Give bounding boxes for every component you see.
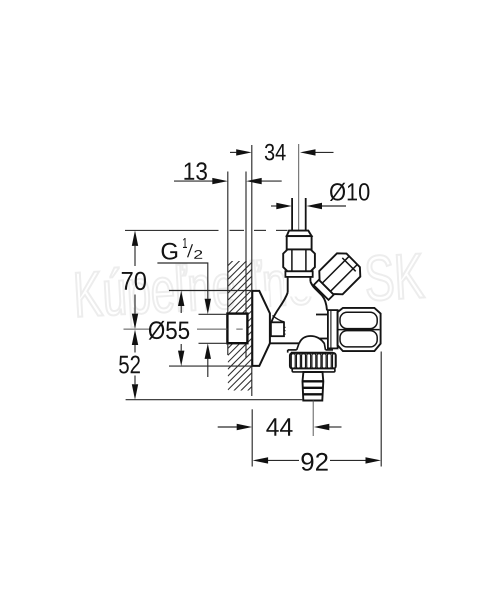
dimension: 92 <box>253 453 381 471</box>
watermark Kupelne.SK <box>76 250 426 330</box>
wall left face line <box>227 172 229 356</box>
dome flares and shelves <box>297 343 326 350</box>
inlet pipe extension lines <box>199 313 228 315</box>
body saddle curve <box>273 316 285 322</box>
compression fitting cap <box>287 231 312 237</box>
bonnet dome <box>299 336 324 343</box>
extension line right of 92 <box>380 352 382 467</box>
diagonal branch hex nut <box>319 253 360 294</box>
dimension: diameter 55 <box>124 291 253 367</box>
wall flange (escutcheon) <box>252 291 270 366</box>
hose barb outline <box>303 372 324 401</box>
dimension: G 1/2 label <box>157 238 211 377</box>
dimension: 44 <box>218 418 342 436</box>
dimension: diameter 10 <box>271 183 369 210</box>
dimension: 52 <box>119 330 303 400</box>
dimension: 13 <box>174 162 282 184</box>
valve inlet neck with thread <box>271 322 284 336</box>
right nut middle facet line <box>339 329 380 331</box>
compression fitting upper body <box>287 236 312 249</box>
right outlet hex nut <box>338 308 381 351</box>
hose center line <box>312 400 314 436</box>
G1/2 threaded nipple in wall <box>227 314 247 344</box>
washer under nut <box>285 271 312 277</box>
valve top port tube <box>287 277 289 293</box>
diagonal nut facet lines <box>322 256 349 283</box>
tile surface line <box>251 145 253 396</box>
wall right face line <box>245 172 247 314</box>
dimension: 34 <box>230 144 334 161</box>
body bottom shelf line <box>270 342 299 344</box>
extension line left of 44/92 <box>251 409 253 466</box>
handwheel bottom rim <box>292 369 335 372</box>
top thin pipe <box>291 198 293 231</box>
valve white silhouette <box>252 231 380 401</box>
nipple center dash <box>236 328 242 330</box>
right nut lower facet <box>340 331 377 347</box>
right outlet port lines <box>316 314 328 316</box>
barb ridge lines <box>303 380 324 382</box>
compression fitting hex nut <box>283 249 315 271</box>
wall hatching <box>228 221 252 418</box>
right outlet collar <box>328 310 338 348</box>
pipe axis center line <box>298 144 300 230</box>
diagonal branch collar <box>314 280 334 300</box>
body left shoulder curve <box>272 293 288 322</box>
knurled handwheel <box>290 353 336 369</box>
right nut upper facet <box>340 312 377 328</box>
hex nut facet lines <box>291 250 293 271</box>
diagonal nut end face <box>342 258 355 271</box>
body right contour into branch <box>310 282 327 311</box>
dimension: 70 <box>122 230 288 329</box>
